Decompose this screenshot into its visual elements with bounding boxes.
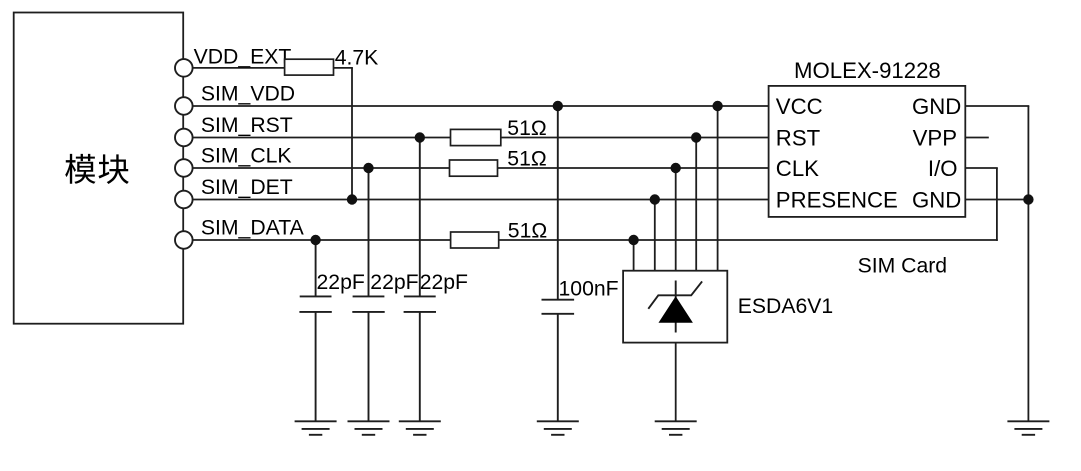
pin DATA of module: [175, 231, 193, 249]
svg-text:VDD_EXT: VDD_EXT: [194, 46, 292, 69]
pin DET of module: [175, 191, 193, 209]
wire ESD pin 4 from SIM_RST: [695, 138, 697, 271]
junction GND2 junction: [1023, 194, 1033, 204]
svg-text:GND: GND: [912, 187, 961, 212]
ground D1: [655, 421, 697, 435]
wire VDD_EXT pin to R1: [193, 67, 285, 69]
resistor R2 51R (SIM_RST): [451, 129, 501, 145]
svg-text:51Ω: 51Ω: [508, 220, 547, 243]
pin CLK of module: [175, 159, 193, 177]
svg-text:SIM_RST: SIM_RST: [201, 114, 293, 137]
wire I/O vertical to SIM_DATA: [996, 168, 998, 241]
junction ESD on SIM_VDD: [712, 101, 722, 111]
junction ESD on SIM_RST: [691, 132, 701, 142]
wire ESD pin 5 from SIM_VDD: [717, 106, 719, 271]
junction ESD on SIM_DATA: [628, 235, 638, 245]
svg-text:22pF: 22pF: [370, 271, 418, 294]
wire ESD pin 3 from SIM_CLK: [675, 168, 677, 271]
wire GND vertical: [1027, 106, 1029, 421]
capacitor C2 22pF: [352, 168, 384, 421]
svg-text:CLK: CLK: [776, 156, 819, 181]
svg-text:MOLEX-91228: MOLEX-91228: [794, 58, 941, 83]
ground J1 GND: [1007, 421, 1049, 435]
svg-text:51Ω: 51Ω: [507, 147, 546, 170]
D1 TVS symbol: [648, 281, 702, 333]
svg-text:51Ω: 51Ω: [507, 117, 546, 140]
module name 模块 (drawn glyph paths): [65, 154, 129, 184]
resistor R4 51R (SIM_DATA): [451, 232, 499, 248]
wire VPP stub: [965, 137, 989, 139]
wire ESD pin 2 from SIM_DET: [654, 200, 656, 271]
wire GND top to corner: [965, 105, 1029, 107]
wire SIM_DATA pin to R4: [193, 239, 451, 241]
wire R3 to CLK pin of J1: [498, 167, 769, 169]
svg-text:GND: GND: [912, 94, 961, 119]
junction ESD on SIM_CLK: [671, 163, 681, 173]
TVS diode array D1 ESDA6V1: [623, 271, 727, 343]
capacitor C3 22pF: [404, 138, 436, 422]
junction C1 on SIM_DATA: [310, 235, 320, 245]
svg-text:4.7K: 4.7K: [335, 46, 379, 69]
wire SIM_VDD net: [193, 105, 769, 107]
wire SIM_CLK pin to R3: [193, 167, 450, 169]
wire I/O to corner: [965, 167, 998, 169]
svg-text:SIM_DATA: SIM_DATA: [201, 217, 305, 240]
svg-text:SIM_DET: SIM_DET: [201, 176, 293, 199]
svg-text:22pF: 22pF: [420, 271, 468, 294]
wire GND2 to vertical: [965, 199, 1028, 201]
junction C3 on SIM_RST: [415, 132, 425, 142]
svg-text:PRESENCE: PRESENCE: [776, 187, 898, 212]
SIM connector J1 MOLEX-91228: [769, 86, 966, 217]
ground C1: [295, 421, 337, 435]
ground C2: [348, 421, 390, 435]
wire R2 to RST pin of J1: [501, 137, 769, 139]
svg-text:SIM_VDD: SIM_VDD: [201, 83, 295, 106]
junction 4.7K to SIM_DET: [347, 194, 357, 204]
svg-text:SIM_CLK: SIM_CLK: [201, 144, 292, 167]
capacitor C4 100nF: [542, 106, 575, 421]
resistor R1 4.7K: [285, 59, 334, 75]
svg-text:100nF: 100nF: [559, 277, 619, 300]
svg-text:ESDA6V1: ESDA6V1: [738, 295, 833, 318]
wire ESD pin 1 from SIM_DATA: [633, 240, 635, 271]
wire SIM_RST pin to R2: [193, 137, 451, 139]
svg-text:VCC: VCC: [776, 94, 823, 119]
pin RST of module: [175, 129, 193, 147]
junction C2 on SIM_CLK: [363, 163, 373, 173]
module block U1 模块: [14, 13, 184, 324]
wire D1 to ground: [675, 343, 677, 422]
wire SIM_DET net: [193, 199, 769, 201]
wire R1 to pullup corner: [334, 67, 353, 69]
junction ESD on SIM_DET: [650, 194, 660, 204]
junction C4 on SIM_VDD: [553, 101, 563, 111]
svg-text:VPP: VPP: [913, 126, 957, 151]
wire 4.7K pullup vertical: [351, 68, 353, 200]
ground C3: [399, 421, 441, 435]
wire R4 to I/O corner: [499, 239, 998, 241]
resistor R3 51R (SIM_CLK): [450, 160, 498, 176]
pin VDDEXT of module: [175, 59, 193, 77]
svg-text:I/O: I/O: [928, 156, 958, 181]
svg-text:SIM Card: SIM Card: [858, 254, 947, 277]
svg-text:22pF: 22pF: [317, 271, 365, 294]
svg-text:RST: RST: [776, 126, 821, 151]
ground C4: [537, 421, 579, 435]
pin VDD of module: [175, 97, 193, 115]
capacitor C1 22pF: [299, 240, 331, 421]
